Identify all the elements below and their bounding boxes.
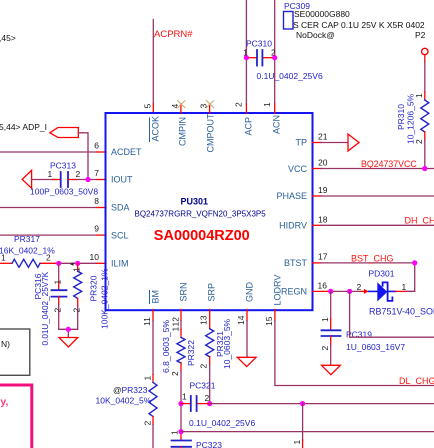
wire rail SRN net to right edge xyxy=(181,431,434,433)
svg-text:S CER CAP 0.1U 25V K X5R 0402: S CER CAP 0.1U 25V K X5R 0402 xyxy=(293,20,425,30)
svg-text:PR317: PR317 xyxy=(14,234,40,244)
pin 21 TP stub and off-page arrow xyxy=(313,142,322,144)
svg-text:0.1U_0402_25V6: 0.1U_0402_25V6 xyxy=(189,418,255,428)
svg-text:BST_CHG: BST_CHG xyxy=(351,253,394,263)
svg-text:2: 2 xyxy=(46,253,51,263)
capacitor PC316 xyxy=(58,263,60,282)
ground (PC319) xyxy=(322,365,341,374)
junction BST corner xyxy=(412,260,417,265)
svg-text:RB751V-40_SOD: RB751V-40_SOD xyxy=(369,307,434,317)
svg-text:SDA: SDA xyxy=(111,203,130,213)
svg-text:N): N) xyxy=(1,339,10,349)
svg-text:ACP: ACP xyxy=(244,117,254,136)
svg-text:PR310: PR310 xyxy=(396,104,406,130)
svg-text:SRP: SRP xyxy=(207,283,217,302)
svg-text:ACDET: ACDET xyxy=(111,147,142,157)
wire rail SRP net to right edge xyxy=(210,403,434,405)
svg-text:10_0603_5%: 10_0603_5% xyxy=(222,318,232,369)
svg-text:SCL: SCL xyxy=(111,230,129,240)
svg-text:10_1206_5%: 10_1206_5% xyxy=(406,93,416,144)
ground (pin 14) xyxy=(237,357,256,366)
small arrow on ILIM wire xyxy=(70,262,74,266)
svg-text:SRN: SRN xyxy=(179,282,189,301)
svg-text:2: 2 xyxy=(234,102,244,107)
junction ground node xyxy=(66,327,71,332)
svg-text:1: 1 xyxy=(72,267,82,272)
svg-text:8: 8 xyxy=(94,196,99,206)
svg-text:4: 4 xyxy=(170,104,180,109)
svg-text:18: 18 xyxy=(318,214,328,224)
svg-text:SE00000G880: SE00000G880 xyxy=(294,9,350,19)
wire IOUT right segment (pin 7) xyxy=(68,179,77,181)
wire SCL (pin 9) xyxy=(0,234,97,236)
svg-text:REGN: REGN xyxy=(281,287,307,297)
wire ADP_I to IOUT node xyxy=(78,133,88,180)
svg-text:1: 1 xyxy=(1,253,6,263)
svg-text:2: 2 xyxy=(170,371,180,376)
off-page arrow left of PC313 xyxy=(22,170,31,188)
svg-text:PU301: PU301 xyxy=(181,197,209,207)
highlight box (thick pink, cut off) xyxy=(0,385,32,448)
svg-text:PR323: PR323 xyxy=(122,385,148,395)
op-amp / charger IC PU301 body xyxy=(106,113,313,310)
svg-text:2: 2 xyxy=(199,364,209,369)
svg-text:CMPIN: CMPIN xyxy=(178,117,188,146)
svg-text:1: 1 xyxy=(320,317,330,322)
svg-text:IOUT: IOUT xyxy=(111,175,133,185)
svg-text:20: 20 xyxy=(318,158,328,168)
svg-text:PR320: PR320 xyxy=(89,275,99,301)
junction PC310 pin2 xyxy=(272,55,277,60)
svg-text:DL_CHG: DL_CHG xyxy=(399,376,434,386)
wire BTST net BST_CHG (pin 17) xyxy=(313,262,322,264)
junction VCC/PR310 xyxy=(422,166,427,171)
wire BST vertical to diode cathode xyxy=(405,263,415,292)
junction PR321/rail xyxy=(207,401,212,406)
svg-text:2: 2 xyxy=(414,139,424,144)
capacitor PC319 xyxy=(330,291,332,319)
junction rail/branch xyxy=(300,401,305,406)
svg-text:0.01U_0402_25V7K: 0.01U_0402_25V7K xyxy=(41,271,50,345)
wire ACP (pin 2) from top edge xyxy=(245,0,247,104)
svg-text:1: 1 xyxy=(171,327,181,332)
junction ILIM/PR320 xyxy=(75,261,80,266)
wire REGN branch to right edge xyxy=(350,291,434,337)
svg-text:5,44> ADP_I: 5,44> ADP_I xyxy=(0,122,47,132)
svg-text:0.1U_0402_25V6: 0.1U_0402_25V6 xyxy=(257,71,323,81)
svg-text:NoDock@: NoDock@ xyxy=(296,30,335,40)
svg-text:BTST: BTST xyxy=(284,258,308,268)
resistor PR310 xyxy=(424,62,426,92)
svg-text:@: @ xyxy=(113,385,122,395)
svg-text:PC310: PC310 xyxy=(246,39,272,49)
resistor PR320 xyxy=(77,263,79,271)
capacitor PC313 xyxy=(61,172,68,187)
svg-text:LODRV: LODRV xyxy=(273,275,283,306)
svg-text:2: 2 xyxy=(53,308,63,313)
svg-text:CMPOUT: CMPOUT xyxy=(206,113,216,152)
connector P2 terminal circle xyxy=(422,48,428,54)
svg-text:13: 13 xyxy=(199,315,209,325)
wire pin 12 SRN to PR322 xyxy=(180,310,182,321)
svg-text:PHASE: PHASE xyxy=(276,191,307,201)
svg-text:15: 15 xyxy=(264,316,274,326)
svg-text:6.8_0603_5%: 6.8_0603_5% xyxy=(161,320,171,373)
svg-text:1: 1 xyxy=(414,93,424,98)
svg-text:ACPRN#: ACPRN# xyxy=(154,29,193,40)
svg-text:PD301: PD301 xyxy=(369,269,395,279)
svg-text:SA00004RZ00: SA00004RZ00 xyxy=(154,228,250,244)
junction REGN/PC319 xyxy=(328,289,333,294)
svg-text:7: 7 xyxy=(94,168,99,178)
wire ILIM (pin 10) xyxy=(59,262,97,264)
svg-text:BQ24737VCC: BQ24737VCC xyxy=(361,159,417,169)
svg-text:2: 2 xyxy=(76,169,81,179)
junction PR322/PC321 xyxy=(178,401,183,406)
svg-text:1: 1 xyxy=(262,102,272,107)
wire PR323 to bottom edge xyxy=(152,416,154,424)
ground (PC316/PR320) xyxy=(59,338,78,347)
svg-text:2: 2 xyxy=(143,421,153,426)
junction PR322/rail xyxy=(178,429,183,434)
wire ACN (pin 1) from top edge xyxy=(274,0,276,104)
svg-text:5: 5 xyxy=(142,104,152,109)
svg-text:10: 10 xyxy=(90,252,100,262)
svg-text:2: 2 xyxy=(205,393,210,403)
svg-text:PC313: PC313 xyxy=(50,161,76,171)
svg-text:PR322: PR322 xyxy=(186,340,196,366)
svg-text:1: 1 xyxy=(53,280,63,285)
wire branch down from rail xyxy=(302,404,304,440)
pin 4 no-connect stub and X xyxy=(180,104,182,113)
svg-text:17: 17 xyxy=(318,252,328,262)
svg-text:,45>: ,45> xyxy=(0,33,16,43)
svg-text:TP: TP xyxy=(295,138,307,148)
svg-text:14: 14 xyxy=(236,315,246,325)
wire REGN (pin 16) xyxy=(313,290,331,292)
svg-text:16: 16 xyxy=(318,281,328,291)
wire ACDET (pin 6) xyxy=(0,151,97,153)
svg-text:10K_0402_5%: 10K_0402_5% xyxy=(96,396,152,406)
svg-text:ACOK: ACOK xyxy=(151,116,161,142)
junction ILIM/PC316 xyxy=(56,261,61,266)
svg-text:9: 9 xyxy=(94,224,99,234)
svg-text:PC321: PC321 xyxy=(190,381,216,391)
svg-text:HIDRV: HIDRV xyxy=(279,221,307,231)
svg-text:GND: GND xyxy=(245,282,255,303)
wire net ACPRN# vertical to pin 5 xyxy=(152,20,154,105)
svg-text:6: 6 xyxy=(94,141,99,151)
junction REGN branch xyxy=(347,289,352,294)
wire pin 13 SRP to PR321 xyxy=(209,310,211,329)
svg-text:2: 2 xyxy=(357,282,362,292)
svg-text:12: 12 xyxy=(171,317,181,327)
pin 3 no-connect stub and X xyxy=(209,104,211,113)
svg-text:1: 1 xyxy=(170,430,180,435)
svg-text:ILIM: ILIM xyxy=(111,259,129,269)
wire pin 11 BM to PR323 xyxy=(152,310,154,321)
wire VCC net BQ24737VCC (pin 20) xyxy=(313,168,322,170)
note box (cut off at left edge) xyxy=(0,329,30,375)
svg-text:19: 19 xyxy=(318,185,328,195)
wire pin 15 LODRV net DL_CHG xyxy=(274,310,276,321)
svg-text:21: 21 xyxy=(318,132,328,142)
svg-text:2: 2 xyxy=(72,308,82,313)
junction PC310 pin1 xyxy=(244,55,249,60)
svg-text:1U_0603_16V7: 1U_0603_16V7 xyxy=(346,342,405,352)
wire IOUT left segment xyxy=(32,179,53,181)
svg-text:VCC: VCC xyxy=(288,164,308,174)
wire join PC316/PR320 to ground xyxy=(59,328,78,330)
svg-text:100P_0603_50V8: 100P_0603_50V8 xyxy=(30,187,98,197)
svg-text:1: 1 xyxy=(48,169,53,179)
wire PHASE (pin 19) xyxy=(313,195,322,197)
wire pin 14 GND xyxy=(246,310,248,321)
svg-text:1: 1 xyxy=(292,440,302,445)
svg-text:PC323: PC323 xyxy=(196,440,222,448)
wire HIDRV net DH_CHG (pin 18) xyxy=(313,224,322,226)
junction IOUT/ADP_I xyxy=(85,177,90,182)
svg-text:1: 1 xyxy=(182,392,187,402)
pin 5 stub xyxy=(152,104,154,113)
svg-text:ACN: ACN xyxy=(272,115,282,134)
svg-text:BQ24737RGRR_VQFN20_3P5X3P5: BQ24737RGRR_VQFN20_3P5X3P5 xyxy=(135,210,267,219)
svg-text:DH_CHG: DH_CHG xyxy=(405,216,434,226)
svg-text:P2: P2 xyxy=(415,30,426,40)
svg-text:BM: BM xyxy=(151,290,161,304)
svg-text:1: 1 xyxy=(143,376,153,381)
wire SDA (pin 8) xyxy=(0,207,97,209)
svg-text:11: 11 xyxy=(142,317,152,326)
svg-text:ly,: ly, xyxy=(0,396,8,408)
svg-text:1: 1 xyxy=(402,282,407,292)
svg-text:2: 2 xyxy=(320,346,330,351)
